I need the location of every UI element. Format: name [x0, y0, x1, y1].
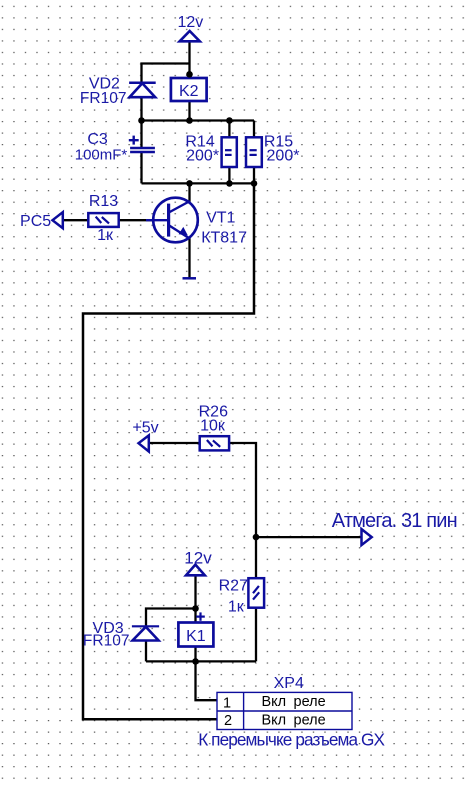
wire long loop to XP4 pin2 — [83, 183, 254, 719]
wire emitter — [188, 238, 190, 279]
diode VD3 — [83, 620, 159, 650]
wire C3 top — [140, 121, 142, 148]
svg-text:K1: K1 — [186, 628, 206, 645]
svg-text:R13: R13 — [89, 193, 118, 210]
connector arrow Atmega 31 pin — [332, 510, 457, 545]
resistor R13 — [88, 193, 118, 244]
junction node R14 lower rail — [226, 180, 233, 187]
svg-text:12v: 12v — [184, 548, 212, 567]
pin 2 label — [262, 713, 326, 729]
connector arrow +5v — [132, 420, 158, 452]
wire R14 bottom pin — [228, 167, 230, 184]
svg-text:10к: 10к — [200, 417, 226, 434]
wire K1 bottom to XP4 pin1 — [196, 647, 218, 701]
resistor R27 — [219, 578, 264, 616]
wire upper rail — [142, 119, 255, 121]
svg-text:200*: 200* — [186, 148, 219, 165]
resistor R15 — [246, 133, 299, 167]
wire node to R27 — [255, 537, 257, 578]
wire lower rail — [142, 182, 255, 184]
junction node Atmega — [253, 534, 260, 541]
wire VD3 anode down — [145, 640, 147, 661]
svg-text:C3: C3 — [87, 131, 108, 148]
svg-text:VT1: VT1 — [206, 210, 235, 227]
wire 12v supply to K2 — [188, 41, 190, 78]
wire R15 top pin — [253, 121, 255, 138]
emitter terminal bar — [183, 277, 197, 280]
junction node K2 top — [186, 71, 193, 78]
junction node K1 bottom — [192, 658, 199, 665]
relay coil K1 — [178, 612, 213, 646]
wire branch to VD3 — [146, 609, 196, 626]
svg-text:R27: R27 — [219, 578, 248, 595]
wire R26 to node — [229, 443, 256, 537]
wire K2 bottom pin — [188, 101, 190, 121]
svg-text:2: 2 — [224, 713, 232, 729]
svg-text:Вкл: Вкл — [262, 713, 287, 729]
connector XP4 — [217, 675, 352, 730]
wire 12v to K1 — [194, 575, 196, 622]
power symbol 12v top — [178, 14, 204, 41]
resistor R14 — [185, 133, 236, 167]
svg-text:реле: реле — [294, 694, 326, 710]
pin 1 label — [262, 694, 326, 710]
junction node R14 upper rail — [226, 117, 233, 124]
power symbol 12v lower — [184, 548, 212, 575]
svg-text:XP4: XP4 — [274, 675, 304, 692]
wire PC5 to R13 — [63, 219, 89, 221]
wire C3 bottom — [140, 153, 142, 184]
relay coil K2 — [171, 78, 207, 101]
svg-text:реле: реле — [294, 713, 326, 729]
svg-text:Атмега. 31 пин: Атмега. 31 пин — [332, 510, 457, 532]
svg-text:PC5: PC5 — [20, 213, 51, 230]
svg-text:12v: 12v — [178, 14, 204, 31]
wire bottom rail VD3 K1 R27 — [146, 660, 256, 662]
svg-text:K2: K2 — [179, 83, 199, 100]
resistor R26 — [199, 404, 229, 451]
svg-text:1к: 1к — [97, 227, 114, 244]
wire R15 bottom pin — [253, 167, 255, 184]
junction node K2 upper rail — [186, 117, 193, 124]
svg-text:200*: 200* — [267, 148, 300, 165]
connector arrow PC5 — [20, 212, 63, 230]
junction node K1 top — [192, 605, 199, 612]
transistor VT1 — [146, 198, 247, 247]
junction node R15 lower rail — [251, 180, 258, 187]
wire to Atmega pin arrow — [256, 536, 362, 538]
junction node VD2 upper rail — [138, 117, 145, 124]
diode VD2 — [80, 76, 156, 108]
svg-text:FR107: FR107 — [80, 90, 127, 107]
capacitor C3 — [75, 131, 155, 164]
svg-text:+5v: +5v — [132, 420, 158, 437]
svg-text:1: 1 — [223, 696, 231, 712]
svg-text:КТ817: КТ817 — [201, 230, 247, 247]
wire R14 top pin — [228, 121, 230, 138]
svg-text:FR107: FR107 — [83, 633, 130, 650]
svg-text:100mF*: 100mF* — [75, 147, 128, 164]
svg-text:1к: 1к — [228, 599, 245, 616]
wire R13 to base — [119, 219, 154, 221]
wire top branch to VD2 — [142, 64, 190, 83]
wire VD2 anode down — [140, 97, 142, 121]
svg-text:К перемычке разъема GX: К перемычке разъема GX — [198, 730, 385, 750]
wire collector — [188, 183, 190, 202]
wire +5v to R26 — [149, 442, 200, 444]
svg-text:Вкл: Вкл — [262, 694, 287, 710]
junction node collector rail — [186, 180, 193, 187]
wire R27 bottom — [255, 608, 257, 662]
